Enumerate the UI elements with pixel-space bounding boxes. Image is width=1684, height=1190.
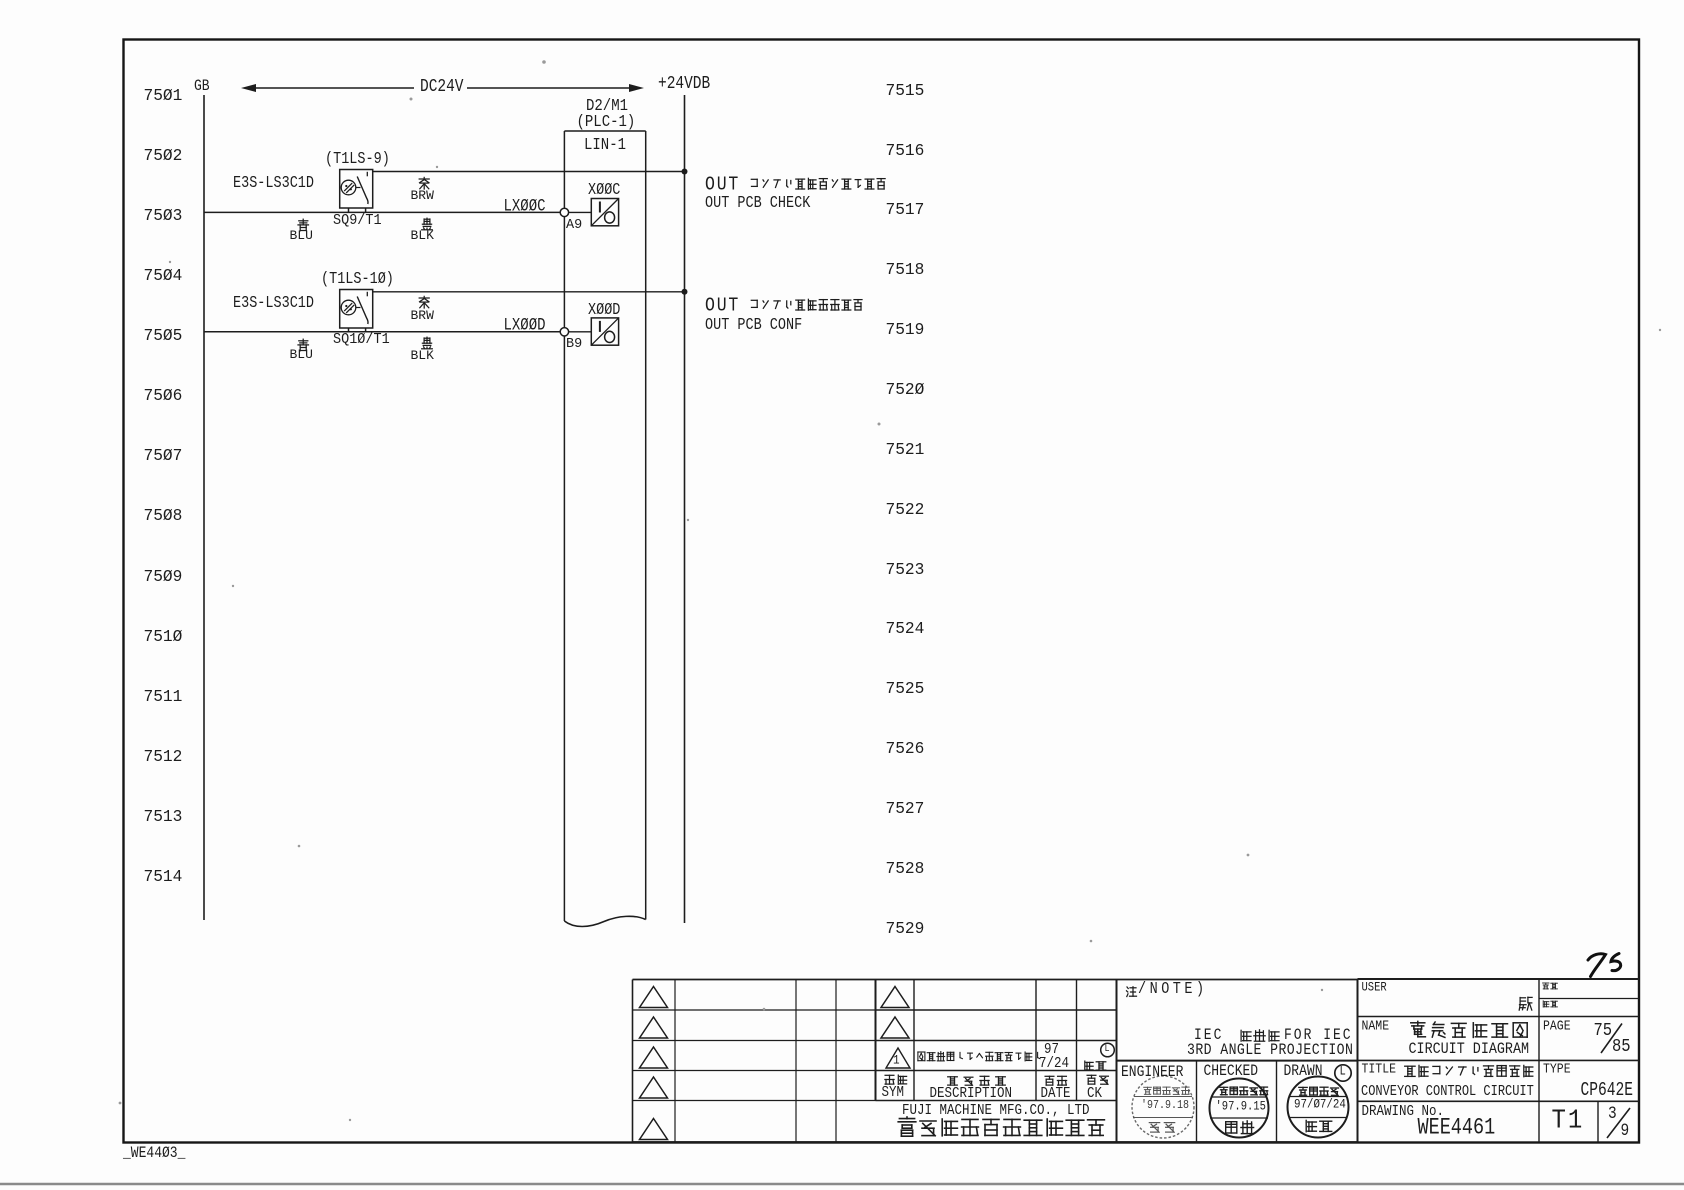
label A9 [566,219,582,233]
label BLK (black wire) [420,217,434,231]
line number 7525 [886,681,925,697]
wire 7505 BLU segment from GB rail [204,331,348,333]
label B9 [566,338,582,352]
drawn approval stamp [1288,1077,1349,1138]
photoelectric sensor SQ10 (T1LS-10) [340,290,373,332]
junction on +24VDB rail [682,289,688,295]
label SQ9/T1 [333,214,382,229]
info part number headers [1541,981,1559,991]
info sheet T1 [1552,1109,1585,1135]
node A9 PLC input terminal [560,208,568,216]
DC24V span arrow [241,84,644,92]
line number 7517 [886,202,925,218]
approval header CHECKED [1204,1063,1259,1079]
wire sensor SQ10 BRW branch to +24VDB rail [373,291,685,293]
line number 7516 [886,143,925,159]
line number 7519 [886,322,925,338]
approval header ENGINEER [1121,1064,1183,1080]
engineer stamp text [1142,1085,1191,1096]
+24VDB bus rail [684,95,686,923]
line number 7524 [886,621,925,637]
line number 7523 [886,562,925,578]
info DRAWING No. WEE4461 [1362,1104,1445,1119]
checked stamp text [1218,1085,1270,1097]
title information block grid [1358,979,1640,1142]
line number 7512 [144,749,183,765]
PLC D2/M1 (PLC-1) LIN-1 block outline [564,131,645,927]
approval header DRAWN [1284,1063,1323,1079]
line number 7515 [886,83,925,99]
circled L mark next to DRAWN [1335,1065,1351,1081]
checked approval stamp [1210,1079,1269,1138]
line number 7529 [886,921,925,937]
info sheet 3/9 [1608,1106,1617,1123]
wire terminal to I/O box [569,211,592,213]
line number 7503 [144,208,183,224]
line number 7510 [144,629,183,645]
comment OUT PCB CHECK [705,196,810,212]
engineer approval stamp [1132,1076,1194,1138]
wire sensor SQ9 BRW branch to +24VDB rail [373,171,685,173]
node B9 PLC input terminal [560,328,568,336]
note heading [1124,984,1138,998]
revision 1 triangle [886,1048,910,1068]
line number 7513 [144,809,183,825]
wire 7503 BLU segment from GB rail [204,211,348,213]
info TITLE conveyor control circuit [1362,1063,1397,1077]
comment OUT PCB CONF (Japanese) [705,296,740,316]
line number 7520 [886,382,925,398]
label BRW (brown wire) [417,176,431,190]
note / approval block grid [1117,980,1358,1143]
sheet fraction slash 3/9 [1607,1108,1630,1138]
line number 7507 [144,448,183,464]
PLC input module X00D I/O symbol [591,318,618,345]
company name FUJI MACHINE MFG.CO., LTD [902,1103,1090,1118]
revision row entry: zu-men replacement note [916,1050,1043,1062]
revision mark triangles SYM column [881,987,909,1039]
label SQ10/T1 [333,333,390,348]
wire 7503 BLK segment to PLC [348,211,560,213]
label BRW (brown wire) [417,295,431,309]
line number 7528 [886,861,925,877]
label BLU (blue wire) [296,218,310,232]
junction on +24VDB rail [682,169,688,175]
label X00D [588,303,620,319]
circled L check mark (revision row) [1101,1043,1115,1057]
drawn stamp text [1297,1085,1341,1097]
line number 7522 [886,502,925,518]
label BLK (black wire) [420,336,434,350]
wire terminal to I/O box [569,331,592,333]
line number 7518 [886,262,925,278]
label (T1LS-10) [321,272,394,288]
revision table header SYM [883,1073,909,1086]
revision table right grid [876,980,1117,1143]
revision table header CK [1085,1073,1111,1086]
label +24VDB [658,75,710,94]
line number 7506 [144,388,183,404]
label (PLC-1) [577,114,636,131]
handwritten page number 75 [1588,954,1621,977]
label E3S-LS3C1D [233,296,314,312]
revision table header DATE [1043,1074,1069,1087]
line number 7509 [144,569,183,585]
line number 7521 [886,442,925,458]
line number 7502 [144,148,183,164]
label X00C [588,183,620,199]
line number 7501 [144,88,183,104]
note IEC text [1194,1027,1223,1043]
film code _WE4403_ [123,1145,185,1161]
label LX00D [504,317,546,335]
info USER [1362,982,1387,995]
line number 7514 [144,869,183,885]
line number 7505 [144,328,183,344]
label D2/M1 [586,98,628,115]
revision table header DESCRIPTION [946,1074,1007,1087]
line number 7508 [144,508,183,524]
label GB [194,78,210,94]
wire 7505 BLK segment to PLC [348,331,560,333]
label DC24V [420,78,464,97]
label LX00C [504,198,546,216]
PLC input module X00C I/O symbol [591,199,618,226]
page fraction slash 75/85 [1601,1024,1622,1054]
info NAME circuit diagram [1362,1020,1390,1034]
label (T1LS-9) [325,152,390,168]
label LIN-1 [584,137,626,154]
revision table left grid [633,980,876,1143]
line number 7504 [144,268,183,284]
line number 7511 [144,689,183,705]
comment OUT PCB CHECK (Japanese) [705,175,740,195]
GB bus rail [203,95,205,920]
line number 7526 [886,741,925,757]
info TYPE CP642E [1543,1063,1571,1077]
label E3S-LS3C1D [233,176,314,192]
comment OUT PCB CONF [705,318,802,334]
label BLU (blue wire) [296,338,310,352]
info PAGE 75/85 [1543,1020,1571,1034]
line number 7527 [886,801,925,817]
photoelectric sensor SQ9 (T1LS-9) [340,170,373,213]
revision mark triangles left column [640,987,668,1140]
